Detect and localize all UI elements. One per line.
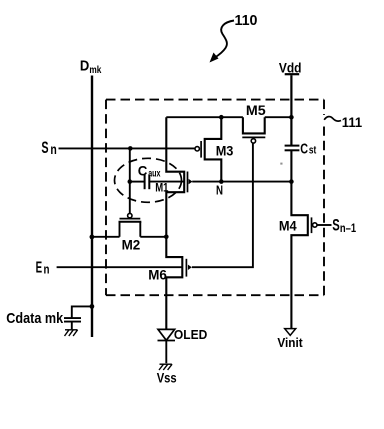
svg-text:S: S [41, 139, 48, 157]
svg-text:S: S [332, 217, 340, 235]
svg-text:N: N [216, 184, 223, 198]
svg-text:M5: M5 [246, 103, 266, 118]
svg-text:Vinit: Vinit [277, 336, 303, 350]
svg-text:n–1: n–1 [340, 221, 356, 235]
svg-text:M2: M2 [122, 236, 141, 252]
svg-text:Vss: Vss [157, 369, 177, 385]
svg-text:n: n [44, 261, 50, 276]
svg-text:C: C [138, 162, 148, 178]
svg-text:M1: M1 [155, 181, 168, 195]
svg-text:D: D [80, 58, 89, 74]
svg-text:111: 111 [342, 115, 363, 130]
svg-text:E: E [36, 259, 43, 276]
svg-text:C: C [300, 142, 308, 158]
svg-text:Vdd: Vdd [279, 60, 302, 76]
svg-text:110: 110 [235, 13, 258, 29]
svg-text:st: st [309, 144, 317, 156]
svg-text:OLED: OLED [174, 328, 207, 342]
svg-text:n: n [50, 142, 56, 157]
svg-text:mk: mk [89, 65, 101, 76]
svg-text:M6: M6 [148, 268, 167, 283]
svg-text:M3: M3 [216, 143, 234, 158]
svg-text:Cdata mk: Cdata mk [6, 310, 63, 327]
svg-text:aux: aux [148, 169, 161, 180]
svg-text:M4: M4 [279, 217, 297, 233]
